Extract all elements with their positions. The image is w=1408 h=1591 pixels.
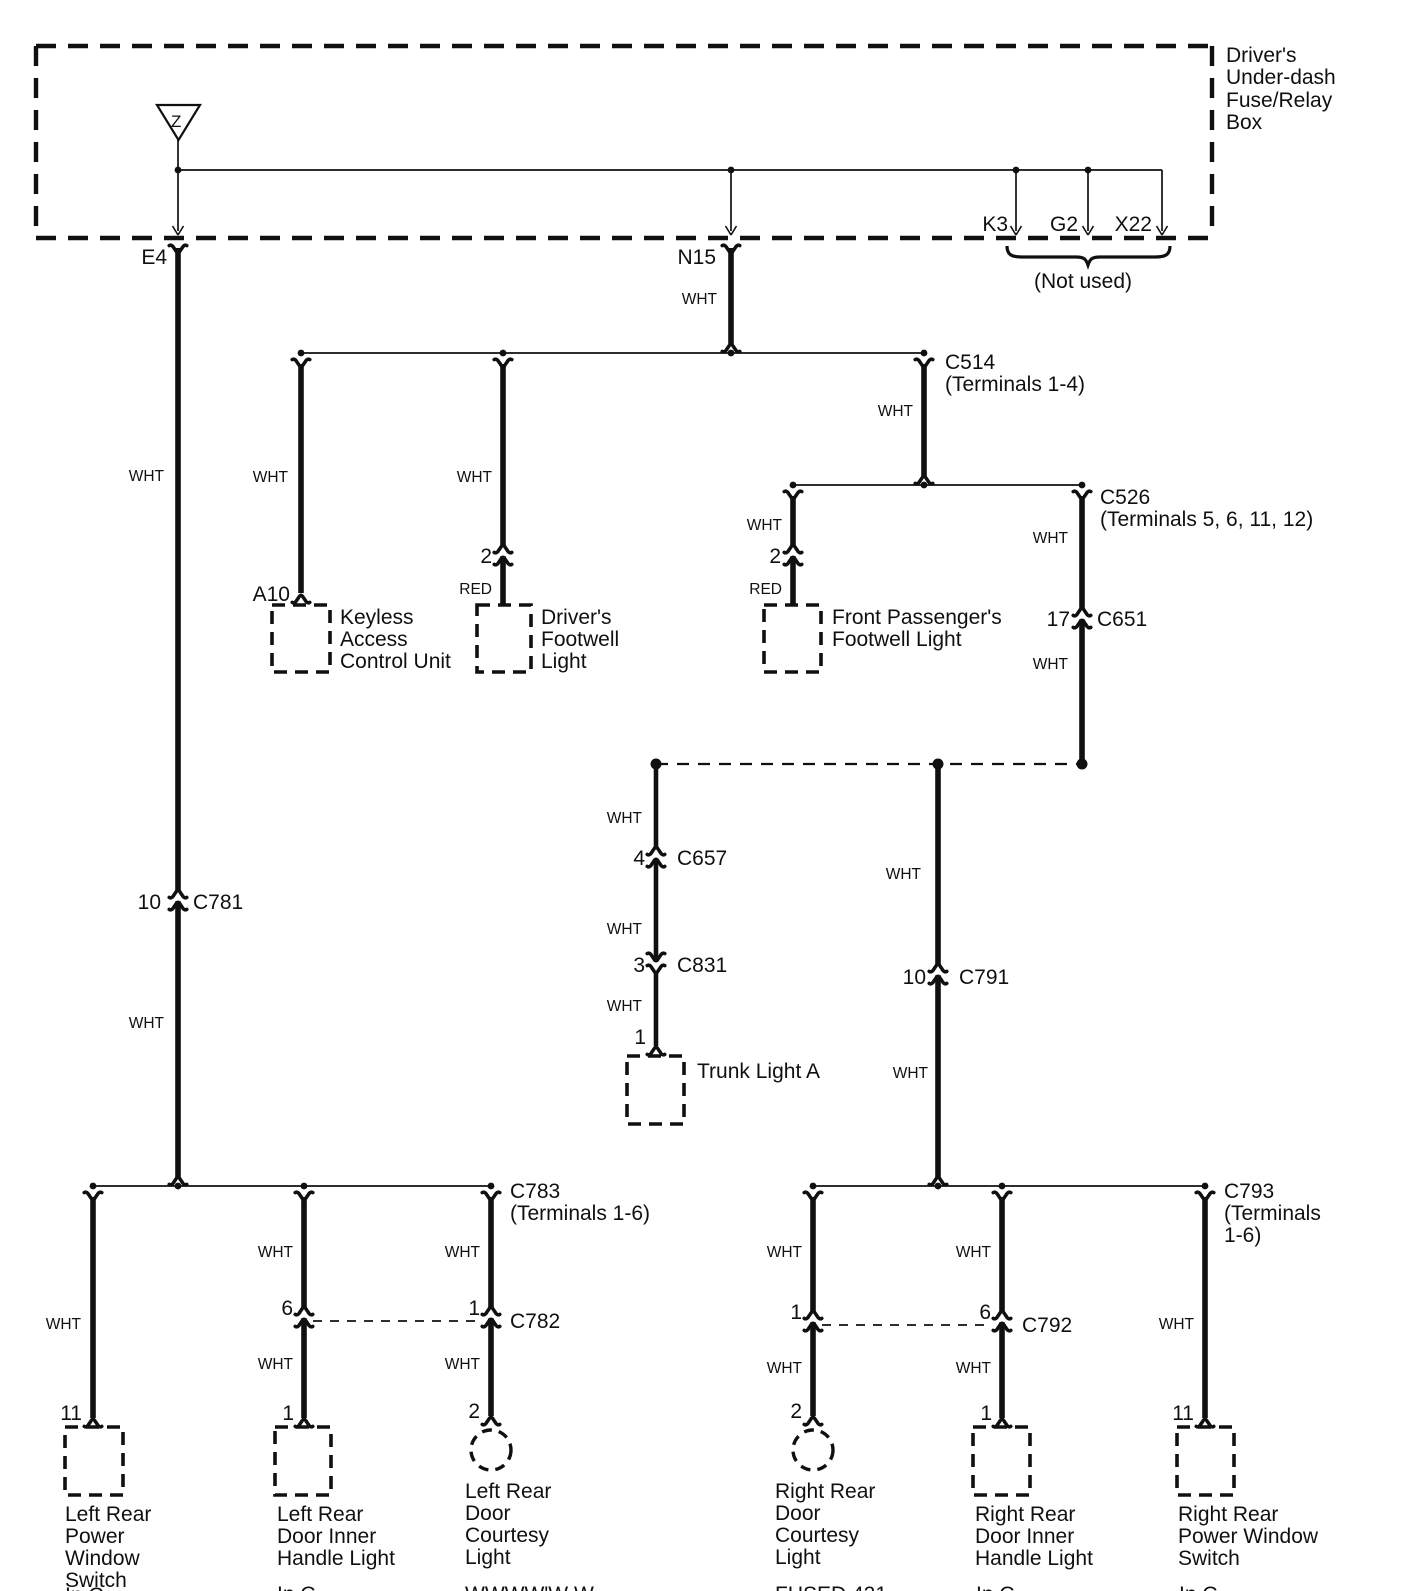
svg-text:K3: K3 — [982, 213, 1008, 236]
svg-text:Footwell: Footwell — [541, 628, 619, 651]
terminal 1 trunk light — [634, 1026, 664, 1055]
svg-text:WHT: WHT — [258, 1244, 294, 1261]
svg-text:Right Rear: Right Rear — [1178, 1503, 1278, 1526]
wire from Z to E4 exit with arrow — [173, 140, 184, 235]
svg-text:(Terminals 1-6): (Terminals 1-6) — [510, 1202, 650, 1225]
svg-text:Footwell Light: Footwell Light — [832, 628, 962, 651]
svg-text:10: 10 — [903, 966, 926, 989]
svg-text:WHT: WHT — [46, 1316, 82, 1333]
right rear door courtesy light bulb — [775, 1430, 875, 1569]
svg-text:WHT: WHT — [956, 1244, 992, 1261]
wire to driver's footwell light — [457, 359, 512, 606]
wire to right rear door inner handle light — [956, 1192, 1011, 1418]
terminal X22 — [1115, 170, 1168, 236]
connector E4 — [141, 245, 186, 269]
wire to left rear door inner handle light — [258, 1192, 313, 1418]
svg-text:Fuse/Relay: Fuse/Relay — [1226, 89, 1333, 112]
inline connector driver's footwell pin 2 — [480, 545, 511, 568]
svg-text:1: 1 — [980, 1402, 992, 1425]
svg-text:WHT: WHT — [607, 921, 643, 938]
driver's footwell light box — [477, 605, 619, 673]
svg-text:Under-dash: Under-dash — [1226, 66, 1336, 89]
svg-text:Handle Light: Handle Light — [277, 1547, 395, 1570]
svg-text:WHT: WHT — [767, 1244, 803, 1261]
svg-text:6: 6 — [979, 1301, 991, 1324]
power source Z — [157, 105, 200, 140]
svg-text:Power Window: Power Window — [1178, 1525, 1319, 1548]
svg-text:WHT: WHT — [682, 291, 718, 308]
dashed link C782 — [313, 1320, 479, 1322]
svg-text:A10: A10 — [253, 583, 290, 606]
inline connector C657 pin 4 — [633, 847, 727, 870]
svg-text:WHT: WHT — [129, 468, 165, 485]
terminal 2 right rear door courtesy light — [790, 1400, 821, 1425]
node at Z stem — [175, 167, 182, 174]
C791 wire junction into C793 bus — [929, 1177, 947, 1189]
terminal 2 left rear door courtesy light — [468, 1400, 499, 1425]
svg-text:C514: C514 — [945, 351, 996, 374]
terminal 11 right rear power window switch — [1172, 1402, 1214, 1427]
trunk light A box — [627, 1056, 820, 1124]
bus wire inside fuse box — [178, 169, 1162, 171]
svg-text:WHT: WHT — [1033, 530, 1069, 547]
svg-text:2: 2 — [480, 545, 492, 568]
svg-text:In C: In C — [277, 1583, 316, 1591]
svg-text:1: 1 — [634, 1026, 646, 1049]
left rear door inner handle light box — [275, 1427, 395, 1570]
wire splice to trunk light — [607, 765, 656, 1046]
inline connector front passenger footwell pin 2 — [769, 545, 801, 568]
svg-text:6: 6 — [281, 1297, 293, 1320]
wire to right rear power window switch — [1159, 1192, 1214, 1418]
terminal 1 left rear door inner handle light — [282, 1402, 312, 1427]
svg-text:10: 10 — [138, 891, 161, 914]
inline connector C792 pin 6 — [979, 1301, 1072, 1337]
wire to front passenger's footwell light — [747, 491, 802, 606]
left rear door courtesy light bulb — [465, 1430, 551, 1569]
svg-text:WHT: WHT — [747, 517, 783, 534]
svg-text:Driver's: Driver's — [541, 606, 612, 629]
svg-text:G2: G2 — [1050, 213, 1078, 236]
inline connector C781 pin 10 — [138, 890, 244, 914]
svg-text:RED: RED — [749, 581, 782, 598]
svg-text:Light: Light — [465, 1546, 511, 1569]
svg-text:Left Rear: Left Rear — [465, 1480, 551, 1503]
svg-text:(Terminals 5, 6, 11, 12): (Terminals 5, 6, 11, 12) — [1100, 508, 1313, 531]
svg-text:Switch: Switch — [1178, 1547, 1240, 1570]
svg-text:Driver's: Driver's — [1226, 44, 1297, 67]
terminal 11 left rear power window switch — [60, 1402, 102, 1427]
svg-text:WHT: WHT — [258, 1356, 294, 1373]
svg-text:2: 2 — [790, 1400, 802, 1423]
svg-text:3: 3 — [633, 954, 645, 977]
svg-text:2: 2 — [468, 1400, 480, 1423]
svg-text:1-6): 1-6) — [1224, 1224, 1261, 1247]
svg-text:E4: E4 — [141, 246, 167, 269]
svg-text:Trunk Light A: Trunk Light A — [697, 1060, 820, 1083]
svg-text:In C: In C — [65, 1584, 104, 1591]
svg-text:2: 2 — [769, 545, 781, 568]
wire to left rear door courtesy light — [445, 1192, 500, 1416]
svg-text:C657: C657 — [677, 847, 727, 870]
svg-text:WHT: WHT — [956, 1360, 992, 1377]
bus line C526 — [790, 482, 1314, 531]
svg-text:1: 1 — [282, 1402, 294, 1425]
E4 wire junction into C783 bus — [169, 1177, 187, 1189]
svg-text:Right Rear: Right Rear — [975, 1503, 1075, 1526]
svg-text:WHT: WHT — [607, 998, 643, 1015]
terminal 1 right rear door inner handle light — [980, 1402, 1010, 1427]
svg-text:Left Rear: Left Rear — [277, 1503, 363, 1526]
svg-text:In C: In C — [976, 1583, 1015, 1591]
svg-text:C783: C783 — [510, 1180, 560, 1203]
svg-text:(Terminals: (Terminals — [1224, 1202, 1321, 1225]
right rear door inner handle light box — [973, 1427, 1093, 1570]
fuse box label — [1226, 44, 1336, 134]
svg-text:Z: Z — [171, 112, 181, 131]
wire to right rear door courtesy light — [767, 1192, 822, 1416]
svg-text:Handle Light: Handle Light — [975, 1547, 1093, 1570]
svg-text:C792: C792 — [1022, 1314, 1072, 1337]
svg-text:FUSED 421: FUSED 421 — [775, 1583, 887, 1591]
svg-text:In C: In C — [1179, 1583, 1218, 1591]
svg-text:WHT: WHT — [607, 810, 643, 827]
right rear power window switch box — [1177, 1427, 1319, 1570]
svg-text:Access: Access — [340, 628, 408, 651]
bus line C793 — [810, 1180, 1321, 1247]
wire N15 to C514 bus — [682, 248, 740, 356]
wire E4 to C781 — [129, 248, 178, 1178]
dashed link C792 — [822, 1324, 989, 1326]
svg-text:WHT: WHT — [253, 469, 289, 486]
svg-text:17: 17 — [1047, 608, 1070, 631]
svg-text:WHT: WHT — [445, 1356, 481, 1373]
svg-text:WHT: WHT — [1159, 1316, 1195, 1333]
wire splice to C791 — [886, 765, 938, 1178]
not-used brace — [1007, 246, 1170, 293]
svg-text:4: 4 — [633, 847, 645, 870]
inline connector C782 pin 1 — [468, 1297, 560, 1333]
svg-text:Control Unit: Control Unit — [340, 650, 451, 673]
svg-text:WHT: WHT — [886, 866, 922, 883]
svg-text:11: 11 — [60, 1402, 82, 1425]
wire C526 to dashed node bus — [1033, 491, 1091, 760]
cut-off next-row text fragments — [65, 1583, 1218, 1591]
svg-text:WHT: WHT — [1033, 656, 1069, 673]
inline connector C831 pin 3 — [633, 953, 727, 977]
svg-text:WHT: WHT — [457, 469, 493, 486]
svg-text:WHT: WHT — [445, 1244, 481, 1261]
svg-text:Courtesy: Courtesy — [775, 1524, 860, 1547]
svg-text:C781: C781 — [193, 891, 243, 914]
bus line C514 — [298, 350, 1085, 396]
terminal G2 — [1050, 167, 1094, 236]
keyless access control unit box — [272, 605, 451, 673]
inline connector C791 pin 10 — [903, 964, 1010, 989]
svg-text:WHT: WHT — [767, 1360, 803, 1377]
svg-text:Courtesy: Courtesy — [465, 1524, 550, 1547]
inline connector C782 pin 6 — [281, 1297, 312, 1327]
svg-text:WHT: WHT — [878, 403, 914, 420]
svg-text:C831: C831 — [677, 954, 727, 977]
svg-text:Light: Light — [541, 650, 587, 673]
terminal K3 — [982, 167, 1021, 236]
svg-text:(Terminals 1-4): (Terminals 1-4) — [945, 373, 1085, 396]
svg-text:C782: C782 — [510, 1310, 560, 1333]
svg-text:WHT: WHT — [893, 1065, 929, 1082]
bus line C783 — [90, 1180, 650, 1225]
wire to left rear power window switch — [46, 1192, 102, 1418]
svg-text:1: 1 — [790, 1301, 802, 1324]
svg-text:Left Rear: Left Rear — [65, 1503, 151, 1526]
wire to keyless access control unit — [253, 359, 310, 593]
svg-text:C526: C526 — [1100, 486, 1150, 509]
svg-text:C791: C791 — [959, 966, 1009, 989]
fuse/relay box dashed border — [36, 46, 1212, 238]
svg-text:Door Inner: Door Inner — [277, 1525, 376, 1548]
svg-text:Door Inner: Door Inner — [975, 1525, 1074, 1548]
svg-text:11: 11 — [1172, 1402, 1194, 1425]
svg-text:Door: Door — [775, 1502, 821, 1525]
svg-text:Door: Door — [465, 1502, 511, 1525]
wire C514 bus to C526 bus — [878, 359, 933, 488]
svg-text:Right Rear: Right Rear — [775, 1480, 875, 1503]
svg-text:Power: Power — [65, 1525, 125, 1548]
svg-text:Box: Box — [1226, 111, 1263, 134]
front passenger's footwell light box — [764, 605, 1002, 672]
svg-text:Window: Window — [65, 1547, 141, 1570]
svg-text:1: 1 — [468, 1297, 480, 1320]
dashed splice bus — [651, 759, 1088, 770]
svg-text:RED: RED — [459, 581, 492, 598]
svg-text:N15: N15 — [677, 246, 716, 269]
svg-text:(Not used): (Not used) — [1034, 270, 1132, 293]
left rear power window switch box — [65, 1427, 151, 1591]
svg-text:C793: C793 — [1224, 1180, 1274, 1203]
svg-text:Light: Light — [775, 1546, 821, 1569]
svg-text:C651: C651 — [1097, 608, 1147, 631]
svg-text:Keyless: Keyless — [340, 606, 414, 629]
svg-text:WHT: WHT — [129, 1015, 165, 1032]
svg-text:WWWW'W W: WWWW'W W — [465, 1583, 594, 1591]
terminal A10 — [253, 583, 310, 606]
inline connector C792 pin 1 — [790, 1301, 821, 1331]
inline connector C651 pin 17 — [1047, 608, 1148, 631]
wire N15 drop inside box — [726, 167, 737, 235]
svg-text:Front Passenger's: Front Passenger's — [832, 606, 1002, 629]
connector N15 — [677, 245, 739, 269]
svg-text:X22: X22 — [1115, 213, 1152, 236]
